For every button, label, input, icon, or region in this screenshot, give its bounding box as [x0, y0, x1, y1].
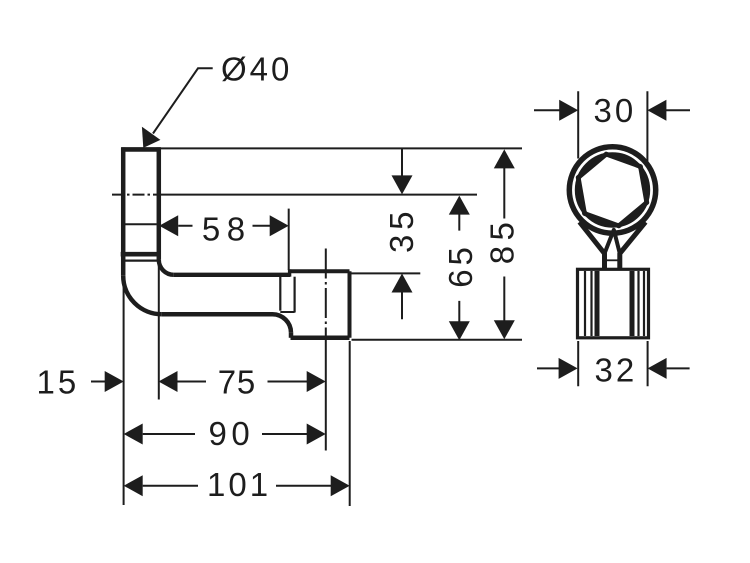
arrowhead 58 right: [270, 215, 289, 236]
arrowhead 65 up: [449, 196, 470, 215]
arrowhead 65 down: [449, 321, 470, 340]
loop right arm: [620, 222, 646, 269]
arrowhead 58 left: [159, 215, 178, 236]
svg-text:32: 32: [595, 352, 638, 389]
dim 101 shafts: [143, 485, 332, 487]
dim 32 shafts: [537, 367, 690, 369]
end block bottom edge: [291, 336, 350, 341]
svg-text:65: 65: [442, 243, 479, 288]
leader line for diameter 40: [153, 68, 213, 133]
pipe flange thick joint line: [121, 252, 161, 257]
horizontal centerline dash-dot across tube: [112, 194, 162, 196]
extension lines 30: [578, 91, 647, 161]
dim 85 shafts: [503, 167, 505, 321]
end block left lower edge: [289, 333, 294, 338]
arrowhead 15 right: [105, 371, 124, 392]
arrowhead 35 up: [392, 274, 413, 293]
dim 15 shaft: [91, 381, 106, 383]
arrowhead 101 right: [331, 475, 350, 496]
pipe tube interior seam line: [125, 223, 157, 225]
arrowhead 90 right: [307, 424, 326, 445]
pipe tube top cap edge: [121, 147, 161, 152]
svg-text:90: 90: [209, 415, 255, 452]
end block right edge: [348, 271, 352, 338]
svg-text:58: 58: [202, 210, 252, 247]
horizontal pipe bottom edge: [162, 312, 273, 317]
arrowhead 75 left: [159, 371, 178, 392]
socket inner line left: [279, 277, 281, 311]
ring outer circle: [569, 147, 655, 233]
pipe flange thin joint line: [122, 260, 161, 262]
elbow outer bend: [123, 276, 162, 315]
vertical centerline extension below block: [325, 350, 327, 451]
connector block inner thin line L1: [584, 271, 586, 336]
arrowhead 85 up: [494, 149, 515, 168]
arrowhead 32 left: [648, 358, 667, 379]
dim 35 shafts: [401, 148, 403, 319]
connector block inner thick line R3: [630, 271, 635, 336]
connector block inner thin line R2: [637, 271, 639, 336]
socket bottom thin line: [280, 311, 294, 313]
arrowhead 30 right: [559, 100, 578, 121]
end block step edge: [288, 269, 291, 276]
arrowhead 90 left: [124, 424, 143, 445]
extension line left edge down: [123, 287, 125, 505]
extension line tube right edge down: [158, 264, 160, 400]
svg-text:30: 30: [594, 92, 637, 129]
dim 30 shafts: [534, 109, 690, 111]
socket inner line right: [294, 277, 296, 313]
neck tick line: [606, 259, 619, 261]
extension line block top right: [352, 272, 421, 274]
loop inner crossing: [605, 230, 620, 254]
arrowhead 30 left: [647, 100, 666, 121]
arrowhead 35 down: [392, 175, 413, 194]
extension line block right down: [349, 341, 351, 506]
connector block inner thin line L2: [590, 271, 592, 336]
svg-text:15: 15: [37, 363, 80, 400]
arrowhead 85 down: [494, 320, 515, 339]
horizontal centerline extension: [162, 194, 477, 196]
dim 90 shafts: [143, 433, 308, 435]
svg-text:Ø40: Ø40: [221, 51, 292, 88]
arrowhead 75 right: [307, 371, 326, 392]
connector block inner thick line L3: [595, 271, 600, 336]
horizontal pipe top edge: [174, 273, 290, 277]
vertical centerline dash-dot of end block: [325, 249, 327, 351]
hex hole: [578, 154, 647, 226]
svg-text:85: 85: [484, 217, 521, 265]
svg-text:75: 75: [218, 363, 256, 400]
dim 75 shafts: [178, 381, 308, 383]
loop left arm: [580, 222, 605, 269]
leader arrowhead: [142, 127, 161, 148]
arrowhead 32 right: [559, 358, 578, 379]
svg-text:35: 35: [383, 207, 420, 253]
extension line 58 right: [288, 209, 290, 270]
connector block inner thin line R1: [643, 271, 645, 336]
arrowhead 101 left: [124, 475, 143, 496]
extension line part bottom right: [352, 339, 523, 341]
connector block outline: [578, 269, 649, 338]
extension lines 32: [578, 341, 647, 386]
extension line top of part: [161, 147, 522, 149]
pipe to block bottom fillet: [273, 314, 292, 333]
pipe tube right edge: [157, 147, 162, 259]
end block top edge: [290, 269, 350, 273]
svg-text:101: 101: [207, 466, 271, 503]
ring inner circle: [577, 154, 648, 225]
dim 65 shafts: [458, 214, 460, 323]
elbow inner bend fillet: [159, 260, 174, 275]
pipe tube left edge: [121, 147, 126, 275]
dim 58 shafts: [178, 225, 271, 227]
